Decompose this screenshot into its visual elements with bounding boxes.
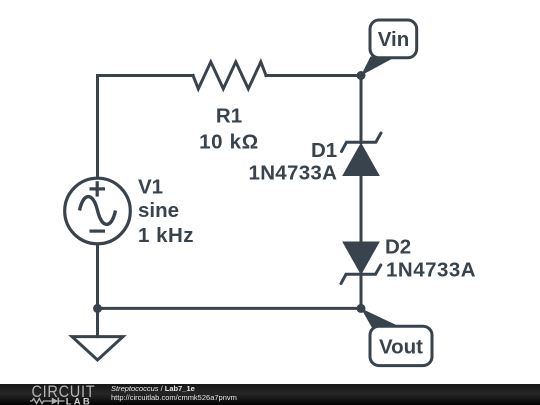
ground	[72, 337, 123, 360]
wire resistor to Vin node	[266, 74, 361, 77]
svg-text:V1: V1	[138, 176, 163, 199]
V1 value labels	[138, 176, 194, 248]
wire top-left vertical	[98, 76, 194, 178]
wire bottom horizontal	[98, 307, 362, 310]
svg-text:1N4733A: 1N4733A	[249, 162, 338, 185]
footer url text	[111, 394, 237, 402]
wire Vin node down to D1	[360, 76, 363, 143]
zener diode D1	[342, 133, 382, 176]
wire D1 to D2	[360, 176, 363, 243]
svg-text:1 kHz: 1 kHz	[138, 224, 194, 247]
svg-text:R1: R1	[216, 105, 242, 128]
node Vin dot	[357, 71, 366, 80]
D2 labels	[385, 235, 476, 281]
footer bar	[0, 384, 540, 405]
svg-text:1N4733A: 1N4733A	[386, 259, 476, 282]
node label Vout pointer	[361, 308, 399, 327]
wire V1 bottom to node	[96, 245, 99, 308]
voltage source V1	[65, 178, 131, 244]
node ground dot	[93, 304, 102, 313]
CircuitLab logo	[0, 384, 140, 405]
svg-text:Vin: Vin	[378, 28, 410, 51]
node label Vout	[370, 326, 432, 365]
footer title text	[111, 385, 195, 393]
R1 labels	[199, 105, 259, 154]
svg-text:sine: sine	[138, 199, 179, 222]
node Vout dot	[357, 304, 366, 313]
D1 labels	[249, 139, 338, 185]
node label Vin pointer	[361, 57, 394, 76]
wire D2 to Vout node	[360, 272, 363, 308]
svg-text:10 kΩ: 10 kΩ	[199, 130, 259, 153]
resistor R1	[193, 62, 266, 89]
svg-text:Vout: Vout	[379, 335, 423, 358]
node label Vin	[370, 20, 417, 58]
svg-text:LAB: LAB	[66, 396, 92, 405]
svg-text:D1: D1	[311, 139, 337, 162]
zener diode D2	[341, 242, 381, 284]
wire node to ground	[96, 308, 99, 336]
svg-text:D2: D2	[385, 235, 411, 258]
